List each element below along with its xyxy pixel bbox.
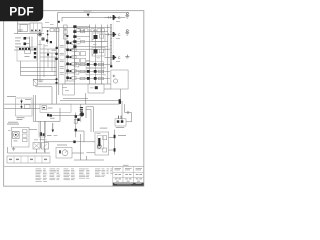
resistor R11	[55, 29, 59, 32]
wire from input box	[20, 61, 22, 76]
power transistor box B	[92, 48, 105, 57]
notes column 6	[107, 169, 113, 174]
junction blob chain1	[75, 115, 77, 118]
fuse F1	[33, 143, 40, 150]
chassis icon 1	[125, 13, 129, 18]
notes column 5	[95, 169, 105, 177]
label Q1 values	[15, 38, 21, 48]
wire to output 1	[105, 16, 113, 18]
thermal diode pair 3	[66, 55, 76, 58]
diode block D22	[74, 63, 79, 74]
junction blob low	[73, 141, 75, 144]
wire low run	[45, 141, 96, 143]
label ladder	[52, 49, 57, 52]
junction blob left	[50, 114, 52, 116]
wire xfmr out	[29, 128, 37, 130]
lower pair frame 2	[86, 69, 104, 75]
module box M2	[63, 84, 75, 95]
diode string D2-D5	[64, 25, 68, 39]
chassis icon 2	[125, 30, 129, 35]
wire junction drop	[47, 31, 49, 44]
PDF badge	[0, 0, 43, 21]
lower row 2	[75, 70, 111, 73]
resistor R40	[103, 136, 107, 140]
relay K1	[20, 25, 28, 32]
wire ladder left	[40, 49, 57, 61]
transistor Q3	[41, 37, 44, 40]
input stage box	[17, 47, 37, 61]
transistor Q11 stack	[80, 107, 83, 112]
thermal diode pair 4	[66, 62, 76, 65]
capacitor C7	[55, 78, 57, 84]
ground chassis	[12, 147, 15, 151]
wire -V rail	[62, 17, 126, 21]
meter M1	[56, 148, 72, 159]
thermal diode pair 1	[66, 41, 76, 44]
junction blob fb	[119, 99, 121, 104]
thermal diode pair 6	[66, 76, 76, 79]
wire long run 3	[21, 75, 57, 77]
regulator module box	[40, 104, 71, 112]
diode D12	[20, 99, 23, 109]
label power text	[7, 80, 44, 97]
wire left feed	[14, 22, 44, 34]
label C terminal 3	[118, 56, 121, 60]
wire right drops	[120, 89, 131, 122]
power supply box	[16, 98, 33, 116]
label output module	[100, 127, 108, 130]
wire bus B	[58, 28, 60, 95]
label meter	[57, 144, 67, 147]
diode block D20	[74, 52, 85, 56]
transistor Q4	[46, 40, 52, 44]
notes column 2	[50, 169, 61, 180]
capacitor C30	[97, 138, 101, 148]
title cells text	[115, 168, 143, 170]
output device Q22	[113, 55, 117, 60]
wire PS verticals	[33, 95, 44, 121]
notes column 1	[36, 169, 48, 182]
connector J1	[19, 48, 30, 50]
wire mid rail	[42, 27, 111, 29]
IC U1	[30, 23, 42, 32]
top row resistor boxes	[76, 29, 105, 32]
wire meter out	[72, 134, 104, 160]
mute transistors	[34, 48, 36, 58]
sense line	[114, 130, 116, 155]
label thermal	[118, 134, 126, 137]
junction blob ladder	[47, 47, 58, 56]
wire breaker out	[35, 87, 52, 104]
label C terminal 2	[118, 33, 121, 37]
wire Q11 leads	[81, 104, 94, 132]
label rail value	[84, 10, 92, 13]
junction block	[110, 65, 112, 67]
diode block D21	[74, 58, 85, 62]
wire drops	[41, 121, 45, 152]
driver row 3	[73, 35, 89, 38]
wire +V top rail	[58, 13, 130, 28]
driver row 4	[73, 40, 108, 43]
resistor R30	[25, 105, 31, 109]
arrow indicator	[52, 123, 55, 133]
power transistor box A	[92, 33, 105, 42]
label sprinkles top	[8, 21, 120, 140]
pot VR1	[25, 48, 31, 57]
wire to drop	[126, 121, 132, 123]
dashed sense 2	[113, 38, 115, 54]
wire feedback 1	[60, 100, 120, 102]
chassis icon 3	[125, 55, 129, 58]
terminal strip TB1	[7, 156, 50, 163]
transformer terminals	[23, 130, 28, 142]
wire sense lines	[14, 37, 34, 51]
notes column 3	[64, 169, 76, 180]
inner cap frame	[97, 136, 103, 149]
wire to output 3	[105, 56, 113, 58]
lower row 3	[75, 77, 111, 80]
wire block bottom	[37, 83, 111, 85]
notes column 4	[79, 169, 90, 179]
label transformer	[7, 122, 19, 125]
breaker CB1	[33, 80, 37, 86]
wire to output 2	[105, 33, 113, 35]
transistor Q2	[37, 33, 42, 36]
wire vertical x65	[65, 28, 67, 84]
wire sense mid	[51, 115, 81, 117]
thermal diode pair 2	[66, 48, 76, 51]
transistor Q1	[24, 37, 30, 45]
label R30	[17, 99, 32, 120]
wire mid cross	[72, 48, 110, 50]
relay box RL1	[39, 121, 46, 137]
capacitor C15	[42, 106, 47, 110]
junction blob chain2	[75, 129, 77, 132]
junction top bus	[58, 21, 60, 23]
output device Q20	[113, 15, 117, 20]
label C terminal 1	[118, 16, 121, 20]
wire vertical x37	[36, 34, 38, 81]
ballast ladder bar	[110, 25, 112, 66]
driver row 1	[73, 25, 89, 28]
wire long run 1	[21, 67, 57, 69]
output bus 4	[107, 25, 109, 85]
title block dark bar	[113, 183, 144, 186]
wire chain vertical	[45, 108, 76, 137]
driver row 2	[73, 30, 108, 33]
capacitor C5	[55, 53, 58, 61]
output bus 3	[101, 25, 103, 85]
wire ladder right	[65, 49, 75, 81]
dashed sense 1	[113, 20, 115, 31]
output module box	[95, 132, 109, 155]
separator line	[4, 166, 144, 168]
title row3 marks	[115, 179, 142, 182]
title row2 marks	[115, 173, 142, 176]
transformer box	[12, 127, 30, 147]
svg-text:PDF: PDF	[9, 4, 34, 18]
junction blob 1	[114, 135, 116, 138]
driver box Q10	[88, 84, 104, 93]
output bus 1	[89, 25, 91, 85]
title block frame	[113, 167, 144, 187]
junction blob 2	[114, 148, 116, 151]
junction dots	[47, 30, 49, 35]
output device Q21	[113, 32, 117, 37]
switch S1	[42, 143, 49, 150]
transformer T1	[13, 131, 20, 141]
wire feedback 2	[4, 103, 119, 105]
label input	[18, 30, 23, 32]
wire chain to module	[76, 131, 95, 153]
resistor R10	[50, 29, 54, 32]
lower row 1	[75, 63, 111, 66]
thermal diode pair 5	[66, 69, 76, 72]
resistor R41	[103, 148, 107, 152]
page border frame	[4, 11, 144, 187]
wire long run 4	[33, 79, 57, 81]
wire module link right	[63, 89, 111, 104]
wire vertical x40	[40, 40, 44, 81]
label sense	[50, 117, 55, 120]
output stage left bus	[74, 28, 76, 84]
label RL1	[40, 135, 52, 140]
driver pair box	[115, 116, 126, 126]
speaker output box	[111, 70, 128, 89]
output bus 2	[95, 25, 97, 85]
diode blobs	[66, 35, 68, 43]
label above title block	[123, 164, 129, 167]
label driver pair	[116, 126, 125, 129]
transistor Q11 body	[77, 112, 84, 121]
lower pair frame 1	[86, 62, 104, 68]
label C15	[48, 107, 53, 110]
driver row 5	[73, 45, 108, 48]
junction blob mid	[47, 114, 49, 117]
wire mains	[8, 147, 51, 153]
wire feedback 3	[4, 108, 40, 110]
diode D9	[87, 14, 90, 17]
wire bus A	[56, 28, 58, 104]
fuse F2	[74, 119, 77, 123]
wire long run 2	[21, 71, 57, 73]
label column mid	[60, 45, 64, 74]
capacitor C20	[113, 75, 118, 83]
wire module out	[109, 138, 114, 151]
wire nested corners	[48, 49, 55, 76]
